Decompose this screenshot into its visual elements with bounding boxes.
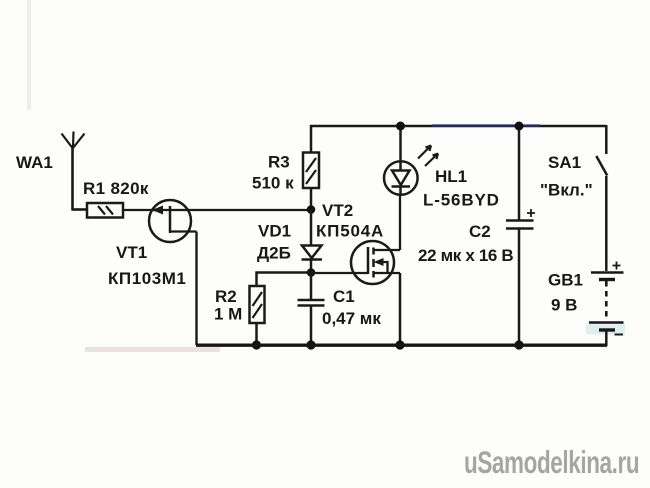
svg-text:WA1: WA1 (16, 153, 53, 172)
svg-text:VD1: VD1 (258, 222, 291, 241)
svg-text:R1 820к: R1 820к (83, 179, 149, 198)
svg-text:Д2Б: Д2Б (257, 244, 291, 263)
transistor VT1 (149, 200, 197, 242)
svg-text:R2: R2 (215, 287, 237, 306)
svg-text:КП103М1: КП103М1 (108, 269, 186, 288)
svg-text:uSamodelkina.ru: uSamodelkina.ru (464, 444, 639, 480)
node C1 bottom (306, 340, 315, 349)
LED HL1 (384, 146, 438, 195)
wire node B to R2 (257, 273, 312, 287)
svg-text:1 М: 1 М (214, 305, 242, 324)
wire R2 to bottom rail (255, 323, 258, 345)
svg-text:VT2: VT2 (322, 201, 353, 220)
node HL1 top (396, 122, 405, 131)
resistor R1 (87, 203, 123, 218)
battery GB1 (586, 262, 625, 335)
wire C2 to bottom rail (518, 229, 521, 346)
capacitor C2 (506, 209, 535, 229)
wire antenna to R1 (72, 208, 88, 211)
svg-text:C1: C1 (333, 287, 355, 306)
svg-text:SA1: SA1 (548, 153, 581, 172)
svg-text:0,47 мк: 0,47 мк (322, 309, 381, 328)
svg-text:"Вкл.": "Вкл." (540, 181, 593, 200)
wire C1 to bottom rail (310, 306, 313, 346)
svg-text:22 мк х 16 В: 22 мк х 16 В (418, 246, 513, 265)
resistor R3 (303, 153, 319, 189)
wire top rail to R3 (310, 125, 313, 153)
antenna WA1 (62, 132, 85, 211)
wire node B to C1 (310, 272, 313, 299)
wire top rail to C2 (518, 126, 521, 220)
svg-text:R3: R3 (268, 153, 290, 172)
wire VT2 source to bottom rail (399, 273, 402, 345)
svg-text:HL1: HL1 (435, 167, 467, 186)
node B (VD1 / R2 / C1 / VT2 gate) (307, 268, 316, 277)
node C2 bottom (514, 340, 523, 349)
svg-text:VT1: VT1 (116, 243, 147, 262)
wire GB1 to bottom rail (605, 330, 608, 346)
svg-text:510 к: 510 к (252, 174, 294, 193)
svg-text:9 В: 9 В (551, 296, 577, 315)
wire SA1 to GB1 (605, 176, 608, 271)
switch SA1 (596, 156, 607, 176)
watermark uSamodelkina.ru (464, 444, 639, 480)
wire VT2 drain to HL1 (399, 194, 401, 250)
wire node A to VD1 (310, 209, 313, 245)
wire top rail corner down to SA1 (605, 125, 608, 154)
capacitor C1 (298, 300, 325, 306)
node VT2 source bottom (395, 340, 404, 349)
svg-text:GB1: GB1 (548, 271, 583, 290)
node C2 top (515, 122, 524, 131)
wire VD1 to node B (310, 259, 313, 272)
wire top rail (310, 124, 606, 127)
wire R1 to VT1 gate (123, 209, 170, 211)
svg-text:КП504А: КП504А (316, 222, 384, 241)
resistor R2 (250, 286, 265, 323)
wire node B to VT2 gate (311, 272, 368, 274)
wire VT1 drain down to bottom rail (195, 232, 197, 346)
wire bottom rail (196, 344, 607, 347)
diode VD1 (302, 246, 323, 260)
wire VT1 source to node A (170, 209, 311, 211)
transistor VT2 (351, 241, 400, 284)
node R2 bottom (252, 340, 261, 349)
wire R3 to node A (310, 188, 313, 209)
svg-text:C2: C2 (469, 222, 491, 241)
node A (R3 / VT1 / VD1) (307, 205, 316, 214)
svg-text:L-56BYD: L-56BYD (423, 191, 500, 210)
wire top rail to HL1 (399, 126, 402, 162)
